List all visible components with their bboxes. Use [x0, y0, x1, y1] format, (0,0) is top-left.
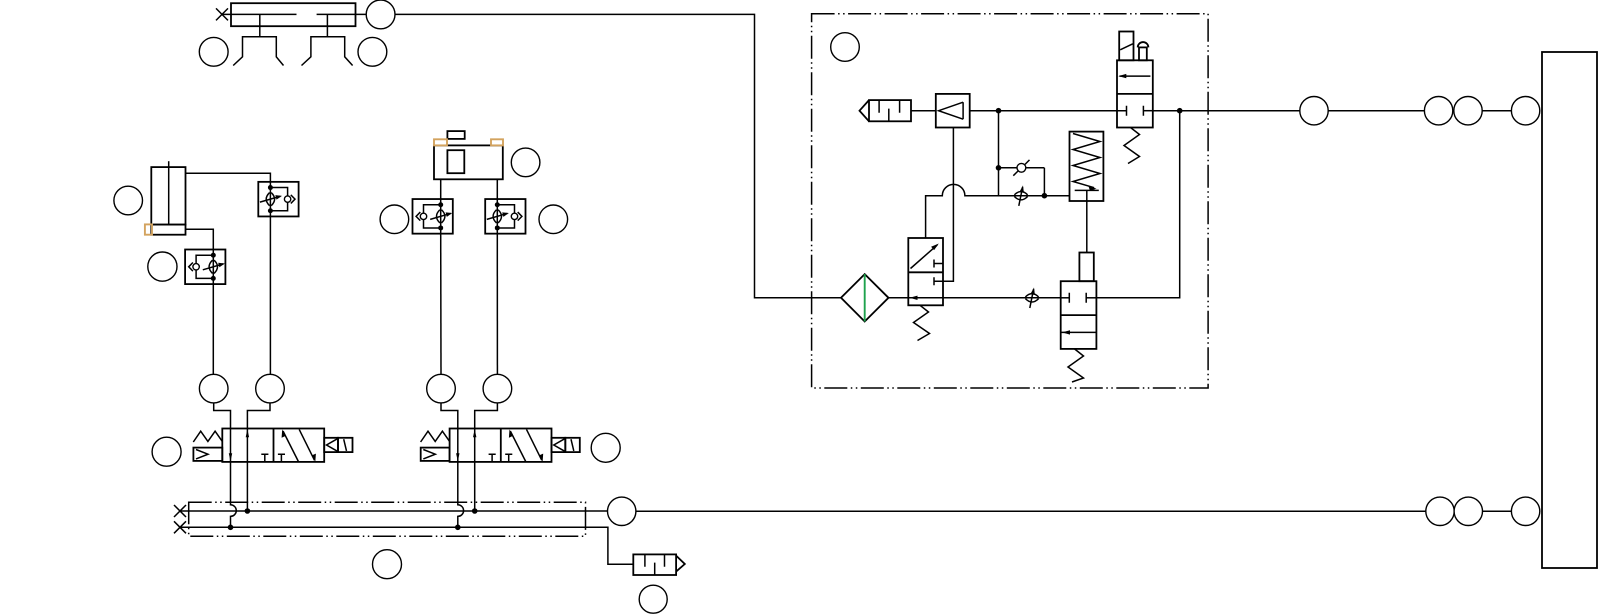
pilot exhaust silencer	[860, 100, 912, 121]
balloon circle (1V1)	[152, 437, 181, 466]
sensor bracket right (tan) on slide	[491, 139, 503, 145]
filter with water separator	[841, 274, 889, 321]
throttle on main line	[1025, 288, 1038, 309]
pressure regulator	[908, 238, 943, 341]
sensor bracket (tan) on compact cylinder	[145, 224, 152, 234]
amplifier / check element	[936, 94, 970, 128]
check valve in branch	[999, 160, 1048, 199]
wire 3V2 down to port circle	[496, 234, 498, 375]
manifold rail 2 (exhaust)	[180, 527, 633, 564]
main pilot line to shutoff valve	[970, 108, 1127, 114]
wire circle 2A to valve 1 port 2	[247, 403, 270, 429]
wire valve1 port1 to manifold rail 2 with hop	[228, 462, 237, 530]
pilot spring cartridge	[1070, 132, 1104, 253]
flow control valve 3V1 (slide left)	[413, 199, 453, 234]
wire cylinder bottom port to flow control	[186, 229, 214, 250]
gripper right jaw	[302, 37, 353, 66]
port circle 2B	[199, 374, 228, 403]
wire to upper block port	[1482, 110, 1511, 112]
port circle on gripper supply line	[366, 0, 395, 29]
wire 3V1 down to port circle	[440, 234, 442, 375]
plug X manifold rail 1	[174, 505, 186, 517]
plug X manifold rail 2	[174, 521, 186, 533]
port circle service outlet	[1300, 97, 1328, 125]
wire to upper block ports	[1328, 110, 1424, 112]
flow control valve 3V2 (slide right)	[485, 199, 525, 234]
feedback wire right side	[1096, 111, 1179, 298]
manifold enclosure (dash-dot)	[189, 502, 586, 536]
wire valve2 port3 to manifold rail 1	[472, 462, 478, 514]
main line through regulator	[889, 297, 1061, 299]
solenoid valve 1V1 (5/2)	[193, 429, 352, 462]
balloon circle (slide)	[511, 148, 540, 177]
balloon circle (3V1)	[380, 205, 409, 234]
port circle pair lower left	[1426, 497, 1454, 525]
balloon circle (1V2)	[591, 433, 620, 462]
right terminal block	[1542, 52, 1597, 568]
pilot operated valve (2/2)	[1061, 253, 1097, 383]
regulator feedback to amplifier	[943, 128, 953, 282]
outlet line of shutoff valve	[1153, 108, 1208, 114]
wire circle 2B to valve 1 port 4	[214, 403, 231, 429]
wire to lower block port	[1483, 510, 1512, 512]
manifold rail 1 (supply)	[180, 510, 608, 512]
port circle 3A	[483, 374, 512, 403]
wire gripper to air supply unit	[395, 14, 841, 297]
port circle manifold supply	[608, 497, 636, 525]
port circle pair upper right	[1454, 97, 1482, 125]
pilot line silencer to amplifier	[911, 110, 936, 112]
gripper cylinder 1A body	[222, 3, 366, 37]
wire 2V2 down to valve port circle	[212, 284, 214, 375]
port circle 3B	[427, 374, 456, 403]
flow control valve 2V1 (right of cylinder)	[258, 182, 298, 217]
flow control valve 2V2 (below cylinder)	[185, 249, 225, 284]
balloon circle (service unit)	[831, 33, 860, 62]
balloon circle (compact cylinder)	[114, 186, 143, 215]
soft-start branch vertical	[996, 111, 1002, 196]
port circle pair lower right	[1454, 497, 1482, 525]
balloon circle (silencer)	[639, 585, 667, 613]
sensor bracket left (tan) on slide	[434, 139, 447, 145]
shutoff valve manual override	[1138, 42, 1149, 60]
port circle 2A	[256, 374, 285, 403]
wire valve1 port3 to manifold rail 1	[245, 462, 251, 514]
solenoid valve 1V2 (5/2)	[421, 429, 580, 462]
gripper left jaw	[233, 37, 283, 66]
slide actuator 3A body	[434, 131, 503, 199]
air service unit enclosure 0Z1 (dash-dot)	[812, 14, 1209, 388]
wire cylinder top port to flow control	[186, 173, 271, 182]
pilot feedback line with hop	[926, 184, 1070, 238]
balloon circle (flow control 2V2)	[148, 252, 177, 281]
balloon circle (3V2)	[539, 205, 568, 234]
wire valve2 port1 to manifold rail 2 with hop	[455, 462, 464, 530]
balloon circle (gripper left)	[199, 37, 228, 66]
wire 2V1 down to valve port circle	[269, 217, 271, 375]
exhaust silencer 1Z1	[633, 554, 685, 575]
balloon circle (gripper right)	[358, 37, 387, 66]
port circle pair upper left	[1424, 97, 1452, 125]
shutoff valve solenoid coil	[1119, 32, 1133, 61]
wire circle 3B to valve 2 port 4	[441, 403, 458, 429]
plug X on gripper port	[216, 8, 228, 20]
balloon circle (manifold)	[373, 550, 402, 579]
shutoff solenoid valve (2/2)	[1117, 60, 1153, 163]
compact cylinder 2A body	[151, 161, 185, 235]
port circle upper at block	[1511, 97, 1539, 125]
long supply wire manifold to right block	[636, 510, 1426, 512]
outlet wire of service unit	[1208, 110, 1300, 112]
wire circle 3A to valve 2 port 2	[475, 403, 498, 429]
port circle lower at block	[1511, 497, 1539, 525]
throttle in branch	[1014, 185, 1027, 206]
